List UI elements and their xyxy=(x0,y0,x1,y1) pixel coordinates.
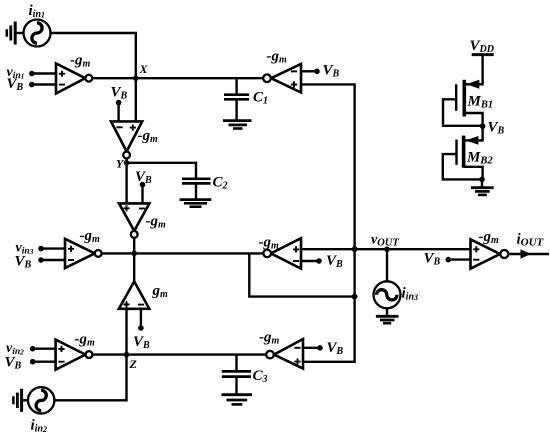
wire G7 minus input stub xyxy=(140,309,142,328)
output bubble G10 xyxy=(500,250,508,258)
wire node Z rail xyxy=(92,353,266,355)
wire C3 stub xyxy=(235,355,237,394)
wire vin1 input xyxy=(32,72,56,74)
junction right vertical at vOUT rail xyxy=(352,246,358,252)
wire VB stub to G2 xyxy=(117,103,119,122)
wire feedback drop from middle rail xyxy=(249,253,354,296)
terminal VB xyxy=(29,82,35,88)
terminal VB dot (output stage) xyxy=(446,257,452,263)
output bubble G2 xyxy=(123,152,130,159)
capacitor C2 xyxy=(182,179,211,184)
transconductor G9 (-gm, bottom right, left-facing) xyxy=(274,339,303,369)
wire vin3 input xyxy=(41,247,65,249)
current source iin1 xyxy=(24,20,51,47)
wire MB2 to ground xyxy=(481,179,483,187)
ground (C2) xyxy=(180,200,212,207)
wire VB stub to G3 xyxy=(141,185,143,204)
terminal vin1 xyxy=(29,71,35,77)
node Y xyxy=(124,160,130,166)
wire VB input (vin3) xyxy=(41,259,65,261)
wire VB input (vin2) xyxy=(33,361,56,363)
ground (iin3) xyxy=(376,316,399,323)
arrowhead iOUT xyxy=(521,249,531,258)
junction middle rail / G3 output xyxy=(131,251,137,257)
wire Y to C2 xyxy=(127,163,196,199)
output bubble G5 xyxy=(95,250,102,257)
wire iin1 to node X down to -gm input xyxy=(51,33,136,121)
terminal VB dot (G9) xyxy=(317,345,323,351)
transconductor G3 (-gm, down-facing above middle rail) xyxy=(119,203,149,231)
node vOUT xyxy=(384,246,390,252)
terminal VB dot (G2) xyxy=(116,100,122,106)
ground (C1) xyxy=(223,121,252,129)
terminal VB (vin2) xyxy=(30,359,36,365)
node Z xyxy=(124,352,130,358)
terminal vin3 xyxy=(38,246,44,252)
transconductor G5 (-gm, vin3) xyxy=(65,239,95,268)
output bubble G9 xyxy=(266,351,274,359)
node X xyxy=(133,75,139,81)
wire G3 output to middle rail xyxy=(133,238,135,254)
current source iin3 xyxy=(374,281,401,308)
wire VB to output -gm xyxy=(448,258,470,260)
wire iOUT xyxy=(508,253,549,255)
wire node X rail xyxy=(92,77,263,79)
terminal VB dot (G6) xyxy=(316,258,322,264)
node VB (bias) xyxy=(480,123,486,129)
power rail VDD bar xyxy=(472,53,494,56)
transconductor G6 (-gm, middle right, left-facing) xyxy=(271,238,301,268)
ground (MB2) xyxy=(471,188,494,195)
transistor MB2 xyxy=(443,126,483,179)
ground (C3) xyxy=(222,395,253,405)
ground (iin2 source, sideways left) xyxy=(13,389,28,412)
transconductor G7 (gm, up-facing) xyxy=(119,281,149,308)
output bubble G3 xyxy=(131,231,138,238)
transconductor G1 (-gm, vin1) xyxy=(56,64,85,94)
junction right vertical at feedback xyxy=(352,294,358,300)
wire vOUT to iin3 xyxy=(386,249,388,281)
ground (iin1 source, sideways left) xyxy=(7,22,24,45)
output bubble G4 xyxy=(263,74,271,82)
wire gm apex to middle rail xyxy=(133,253,135,281)
wire VDD to MB1 drain xyxy=(464,55,482,85)
capacitor C1 xyxy=(224,95,249,100)
wire Y column down to G3 input xyxy=(125,158,127,203)
wire vin2 input xyxy=(33,348,56,350)
output bubble G1 xyxy=(85,75,92,82)
wire VB (G9 minus input) xyxy=(303,347,320,349)
terminal vin2 xyxy=(30,346,36,352)
wire iin3 to ground xyxy=(386,308,388,315)
transconductor G10 (-gm, output, right-facing) xyxy=(471,239,501,268)
svg-text:Z: Z xyxy=(129,357,138,371)
wire iin2 to node Z xyxy=(54,355,126,401)
wire C1 stub xyxy=(235,78,237,119)
capacitor C3 xyxy=(222,371,251,376)
transconductor G2 (-gm, down-facing below X) xyxy=(111,121,142,151)
terminal VB dot (G3) xyxy=(140,182,146,188)
terminal VB dot (G4) xyxy=(314,69,320,75)
wire VB (G4 minus input) xyxy=(301,70,317,72)
wire middle rail xyxy=(102,252,264,254)
current source iin2 xyxy=(28,387,54,413)
wire VB (G6 minus input) xyxy=(301,260,319,262)
output bubble G8 xyxy=(86,351,93,358)
wire VB input xyxy=(32,83,56,85)
wire vOUT rail (G6 plus input to output stage) xyxy=(301,248,471,250)
terminal VB (vin3) xyxy=(38,257,44,263)
transconductor G8 (-gm, vin2) xyxy=(56,340,86,370)
node MB2 source/gate xyxy=(479,177,485,183)
wire G4 plus input down right vertical to bottom -gm plus input xyxy=(301,84,355,361)
svg-text:X: X xyxy=(139,62,149,76)
transconductor G4 (-gm, top right, left-facing) xyxy=(271,64,301,93)
terminal VB dot (G7) xyxy=(138,325,144,331)
transistor MB1 xyxy=(443,80,483,126)
output bubble G6 xyxy=(263,250,271,258)
wire G7 plus input down to node Z xyxy=(125,309,127,355)
